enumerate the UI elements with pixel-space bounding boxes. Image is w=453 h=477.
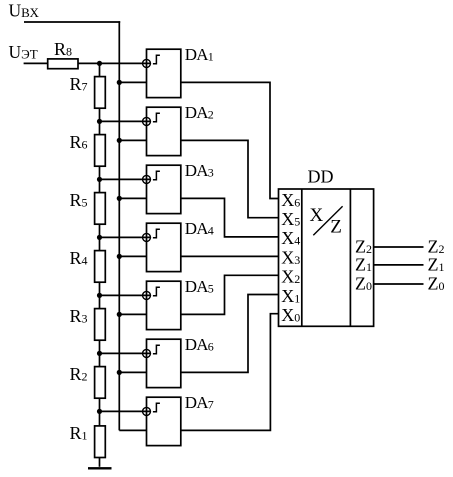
junction Uвх bus at DA2 bbox=[117, 138, 122, 143]
wire DA5 output to X2 bbox=[181, 275, 279, 314]
pin label X3 bbox=[281, 247, 300, 267]
junction ladder tap 2 bbox=[97, 119, 102, 124]
pin label X1 bbox=[281, 286, 300, 306]
op-amp comparator DA2 bbox=[143, 103, 214, 155]
junction Uвх bus at DA4 bbox=[117, 254, 122, 259]
junction ladder tap 4 bbox=[97, 235, 102, 240]
resistor R3 bbox=[70, 306, 106, 340]
junction Uвх bus at DA6 bbox=[117, 370, 122, 375]
pin label X2 bbox=[281, 267, 300, 287]
resistor R8 bbox=[48, 39, 78, 69]
wire ladder tap to DA5 inverting input bbox=[100, 294, 151, 296]
wire ladder tap to DA4 inverting input bbox=[100, 236, 151, 238]
wire Uвх bus to DA2 noninverting input bbox=[119, 139, 146, 141]
junction Uвх bus at DA3 bbox=[117, 196, 122, 201]
pin label Z2 (internal) bbox=[355, 236, 372, 256]
wire R8 to DA1 inverting input bbox=[78, 62, 151, 64]
encoder DD label bbox=[308, 167, 334, 187]
resistor R1 bbox=[70, 423, 106, 457]
resistor R7 bbox=[70, 74, 106, 108]
wire Uвх bus to DA1 noninverting input bbox=[119, 81, 146, 83]
svg-text:DD: DD bbox=[308, 167, 334, 187]
wire Uвх horizontal bbox=[24, 21, 120, 23]
pin label X5 bbox=[281, 209, 300, 229]
net label Z0 bbox=[428, 273, 445, 293]
wire Uэт to R8 bbox=[24, 62, 48, 64]
wire Uвх bus to DA4 noninverting input bbox=[119, 255, 146, 257]
encoder divider left bbox=[301, 189, 303, 326]
op-amp comparator DA6 bbox=[143, 335, 214, 387]
resistor R5 bbox=[70, 190, 106, 224]
net label Z1 bbox=[428, 254, 445, 274]
junction Uвх bus at DA5 bbox=[117, 312, 122, 317]
pin label X0 bbox=[281, 305, 300, 325]
encoder DD box bbox=[279, 189, 374, 326]
op-amp comparator DA1 bbox=[143, 45, 214, 97]
net Uвх label bbox=[9, 0, 40, 20]
junction ladder tap 6 bbox=[97, 351, 102, 356]
ground bbox=[88, 467, 112, 469]
wire DA7 output to X0 bbox=[181, 314, 279, 431]
wire ladder tap to DA2 inverting input bbox=[100, 120, 151, 122]
svg-text:Z: Z bbox=[330, 216, 342, 237]
op-amp comparator DA5 bbox=[143, 277, 214, 329]
op-amp comparator DA4 bbox=[143, 219, 214, 271]
wire DA1 output to X6 bbox=[181, 82, 279, 198]
junction ladder tap 3 bbox=[97, 177, 102, 182]
wire DA6 output to X1 bbox=[181, 295, 279, 373]
wire Uвх bus to DA6 noninverting input bbox=[119, 371, 146, 373]
wire output Z0 bbox=[374, 283, 424, 285]
op-amp comparator DA7 bbox=[143, 393, 214, 445]
encoder divider right bbox=[349, 189, 351, 326]
pin label Z1 (internal) bbox=[355, 254, 372, 274]
wire output Z2 bbox=[374, 246, 424, 248]
wire resistor ladder vertical bbox=[99, 63, 101, 457]
junction ladder top (R8/R7) bbox=[97, 61, 102, 66]
pin label X6 bbox=[281, 190, 300, 210]
pin label Z0 (internal) bbox=[355, 273, 372, 293]
wire DA4 output to X3 bbox=[181, 255, 279, 257]
junction ladder tap 5 bbox=[97, 293, 102, 298]
wire ladder tap to DA6 inverting input bbox=[100, 352, 151, 354]
wire Uвх bus to DA5 noninverting input bbox=[119, 313, 146, 315]
wire Uвх bus to DA7 noninverting input bbox=[119, 429, 146, 431]
wire Uвх bus vertical bbox=[118, 21, 120, 430]
resistor R2 bbox=[70, 364, 106, 398]
resistor R4 bbox=[70, 248, 106, 282]
junction ladder tap 7 bbox=[97, 409, 102, 414]
net label Z2 bbox=[428, 236, 445, 256]
resistor R6 bbox=[70, 132, 106, 166]
wire ladder tap to DA3 inverting input bbox=[100, 178, 151, 180]
wire Uвх bus to DA3 noninverting input bbox=[119, 197, 146, 199]
junction Uвх bus at DA1 bbox=[117, 80, 122, 85]
wire DA2 output to X5 bbox=[181, 140, 279, 217]
wire R1 to ground bbox=[99, 458, 101, 467]
net Uэт label bbox=[9, 42, 38, 62]
symbol X/Z bbox=[310, 205, 343, 237]
op-amp comparator DA3 bbox=[143, 161, 214, 213]
wire output Z1 bbox=[374, 264, 424, 266]
wire ladder tap to DA7 inverting input bbox=[100, 410, 151, 412]
svg-text:X: X bbox=[310, 205, 324, 226]
pin label X4 bbox=[281, 228, 300, 248]
wire DA3 output to X4 bbox=[181, 198, 279, 237]
